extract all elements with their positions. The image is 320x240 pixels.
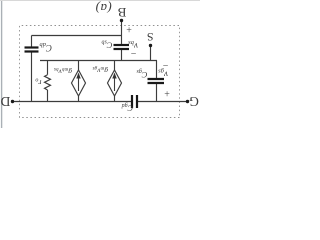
svg-text:+: + (164, 87, 170, 98)
svg-text:D: D (0, 94, 10, 109)
svg-text:S: S (147, 30, 154, 44)
svg-text:(a): (a) (95, 1, 111, 16)
svg-text:−: − (162, 59, 168, 70)
svg-text:−: − (130, 47, 136, 58)
svg-text:+: + (126, 23, 132, 34)
svg-text:G: G (189, 94, 199, 109)
svg-text:B: B (117, 5, 126, 20)
